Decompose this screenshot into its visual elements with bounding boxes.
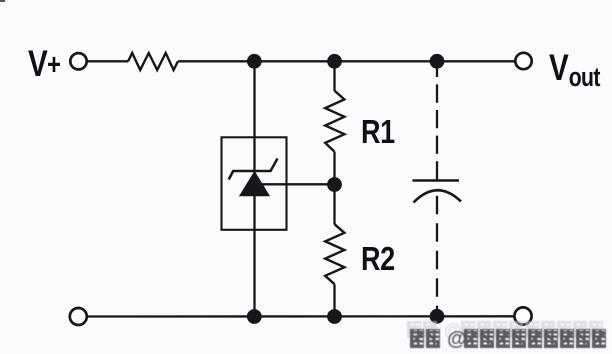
label V+	[28, 43, 60, 85]
zener IC outline box	[222, 137, 287, 230]
zener diode D1 triangle	[240, 172, 269, 196]
node: top rail / capacitor branch junction	[430, 54, 445, 69]
label R1	[361, 113, 395, 151]
wire bottom rail	[87, 315, 514, 318]
label R2	[361, 240, 395, 278]
wire capacitor branch top stub	[436, 61, 438, 77]
terminal bottom-left (open circle)	[70, 308, 87, 325]
zener diode D1 cathode bar	[229, 159, 278, 180]
wire R1 to R2	[333, 152, 335, 225]
node: bottom rail / capacitor branch	[430, 309, 445, 324]
wire zener branch vertical	[253, 61, 255, 316]
node: divider midpoint	[327, 177, 342, 192]
wire reference (zener to divider midpoint)	[259, 183, 335, 185]
node: top rail / R1 branch junction	[327, 54, 342, 69]
series resistor (unlabelled, top rail)	[128, 53, 178, 70]
corner artifact mark	[0, 0, 5, 2]
wire top rail left segment	[87, 60, 128, 62]
wire top rail right segment	[178, 60, 515, 62]
node: bottom rail / R2 branch	[327, 309, 342, 324]
node: bottom rail / zener branch	[247, 309, 262, 324]
terminal Vout (output, open circle)	[515, 53, 531, 69]
node: top rail / zener branch junction	[247, 54, 262, 69]
wire R-branch top lead	[333, 61, 335, 91]
wire R2 bottom lead	[333, 284, 335, 316]
terminal V+ (input, open circle)	[70, 53, 86, 69]
resistor R1	[325, 91, 344, 152]
wire capacitor branch dashed lower	[436, 196, 438, 317]
resistor R2	[325, 224, 344, 284]
watermark light (zhihu @电子工程师助理小七, no CJK font: stylized glyph blocks)	[407, 321, 605, 339]
capacitor C1 curved plate	[414, 190, 462, 202]
watermark dark (头条 @电子工程师助理小七, no CJK font: stylized glyph blocks)	[410, 329, 608, 349]
wire capacitor branch dashed upper	[436, 84, 438, 183]
capacitor C1 top plate	[413, 179, 460, 182]
label Vout	[549, 47, 600, 93]
terminal bottom-right (open circle)	[514, 307, 531, 324]
